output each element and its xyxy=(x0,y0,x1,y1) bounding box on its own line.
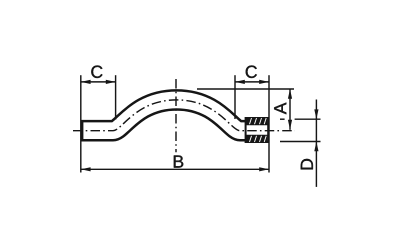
extension line left side of right C xyxy=(234,75,236,119)
arrow left of B dimension xyxy=(81,167,91,171)
pipe body outer (black stroke) xyxy=(81,100,269,131)
label B xyxy=(174,155,183,167)
label C left xyxy=(91,66,102,78)
arrow bottom of A dimension xyxy=(288,120,292,130)
D bottom extension line xyxy=(280,141,321,143)
hump vertical centerline xyxy=(175,79,177,152)
label A (rotated) xyxy=(274,103,286,115)
dimension line B xyxy=(81,168,269,170)
arrow right of C-left dimension xyxy=(106,80,116,84)
D top extension line (right part) xyxy=(295,118,321,120)
white slashes in bottom hatch band xyxy=(250,136,267,142)
dimension line A (vertical) xyxy=(289,89,291,130)
arrow top of A dimension xyxy=(288,89,292,99)
thread hatch band bottom xyxy=(246,136,267,142)
dimension line C left xyxy=(81,81,116,83)
thread hatch band top xyxy=(246,118,267,124)
dimension line D (vertical, long) xyxy=(315,100,317,187)
pipe body inner (white fill leaving outline and end caps) xyxy=(83,100,266,131)
label C right xyxy=(246,66,257,78)
extension line right side of left C xyxy=(115,75,117,119)
hump top extension line for A xyxy=(197,88,294,90)
white slashes in top hatch band xyxy=(250,118,267,124)
label D (rotated) xyxy=(301,159,313,169)
arrow right of C-right dimension xyxy=(259,80,269,84)
dimension line C right xyxy=(235,81,269,83)
arrow below D bottom line (outside, pointing up) xyxy=(314,142,318,152)
pipe centerline (dash-dot along pipe path, extended both ends) xyxy=(73,100,295,131)
arrow left of C-right dimension xyxy=(235,80,245,84)
socket inner wall line top xyxy=(246,123,269,125)
right long extension line (pipe end / C right / B right) xyxy=(268,75,270,172)
arrow above D top line (outside, pointing down) xyxy=(314,109,318,119)
arrow right of B dimension xyxy=(259,167,269,171)
arrow left of C-left dimension xyxy=(81,80,91,84)
left long extension line (pipe end / C left / B left) xyxy=(80,75,82,172)
D top extension line (left part, gap at A line) xyxy=(280,118,285,120)
socket inner wall line bottom xyxy=(246,135,269,137)
threaded socket body at right end xyxy=(246,118,269,142)
